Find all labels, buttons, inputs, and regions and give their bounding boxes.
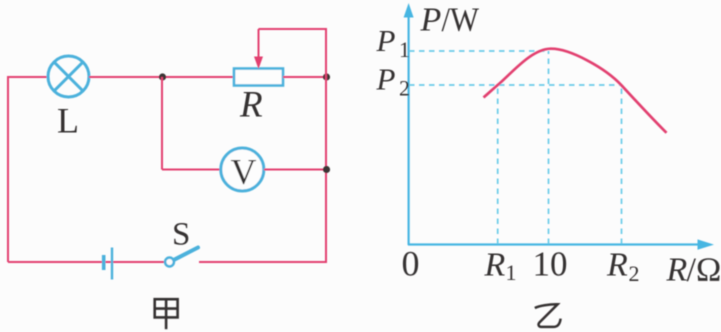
battery (cell) (104, 248, 112, 280)
wire: voltmeter branch horizontal to meter (162, 169, 221, 171)
svg-text:R: R (239, 85, 263, 126)
svg-text:R: R (606, 247, 628, 284)
svg-text:P: P (376, 23, 396, 58)
label P1 (376, 23, 411, 62)
wire: voltmeter to right rail (264, 169, 326, 171)
svg-text:0: 0 (402, 244, 420, 284)
x-axis R/Ohm (408, 239, 714, 249)
y-axis P/W (404, 3, 414, 245)
label 0 at origin (402, 244, 420, 284)
label R (rheostat) (239, 85, 263, 126)
dashed guide: R2 vertical (621, 85, 623, 244)
label R2 on x-axis (606, 247, 640, 287)
svg-text:10: 10 (533, 245, 568, 284)
label L (57, 101, 79, 141)
svg-text:S: S (172, 217, 190, 253)
wiper arrow of rheostat (254, 29, 263, 69)
svg-text:R: R (484, 247, 506, 284)
switch S (165, 248, 198, 267)
caption 乙 (yǐ) drawn as strokes (535, 304, 561, 327)
voltmeter V (221, 148, 264, 192)
wire: bottom left through battery to switch (8, 261, 165, 263)
axis label P/W (420, 2, 480, 39)
wire: right vertical rail (325, 28, 327, 262)
curve: power P vs resistance R (484, 49, 667, 133)
label P2 (376, 62, 411, 101)
svg-text:2: 2 (399, 76, 410, 101)
dashed guide: 10 vertical (548, 51, 550, 244)
node: junction dot top-right (323, 73, 330, 80)
wire: voltmeter branch vertical (161, 77, 163, 170)
svg-text:1: 1 (506, 260, 517, 285)
svg-text:/W: /W (442, 2, 480, 39)
node: junction dot top-left (voltmeter branch tap) (159, 73, 166, 80)
label 10 on x-axis (533, 245, 568, 284)
svg-text:1: 1 (399, 37, 410, 62)
lamp L (circle with X) (48, 56, 89, 97)
wire: top-left horizontal from left rail to lamp (7, 76, 48, 78)
wire: left vertical from lamp loop top-left down to bottom wire (7, 77, 9, 262)
node: junction dot right at voltmeter level (323, 166, 330, 173)
wire: wiper bypass top horizontal to right rail (259, 28, 327, 30)
dashed guide: P1 horizontal (409, 50, 549, 52)
dashed guide: P2 horizontal (409, 84, 622, 86)
svg-text:/Ω: /Ω (687, 252, 721, 289)
svg-text:L: L (57, 101, 79, 141)
wire: rheostat right terminal to right rail (283, 76, 326, 78)
axis label R/Ohm (666, 252, 721, 289)
label S (172, 217, 190, 253)
svg-text:2: 2 (629, 261, 640, 286)
svg-text:P: P (376, 62, 396, 97)
dashed guide: R1 vertical (497, 85, 499, 244)
rheostat R (slide resistor box) (234, 69, 283, 86)
wire: switch to bottom-right corner (199, 261, 327, 263)
caption 甲 (jiǎ) drawn as strokes (155, 299, 178, 329)
label R1 on x-axis (484, 247, 517, 286)
svg-text:R: R (666, 252, 688, 289)
wire: lamp to rheostat left terminal (89, 76, 234, 78)
svg-text:V: V (231, 152, 257, 192)
svg-text:P: P (420, 2, 442, 39)
